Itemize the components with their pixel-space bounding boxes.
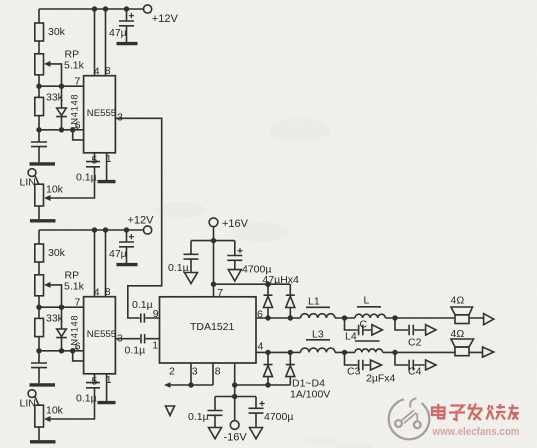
pin 8 stub [105, 9, 107, 76]
ground triangle [250, 428, 263, 439]
diode D4 [286, 352, 295, 385]
junction dot pin3 [188, 382, 193, 387]
open triangle [426, 360, 436, 370]
wire pin6 output row [256, 317, 483, 319]
resistor R 33k [35, 318, 44, 336]
terminal -16V [230, 421, 239, 430]
ground triangle floating [166, 406, 175, 416]
potentiometer RP 5.1k [35, 54, 44, 75]
capacitor 0.1u at pin5 [86, 153, 100, 167]
junction dots pin7 row [36, 84, 64, 89]
capacitor C2 zobel [395, 318, 425, 335]
terminal +16V [209, 218, 218, 227]
open triangle output B [483, 347, 494, 357]
diode D1 [264, 284, 273, 318]
capacitor 4700u supply B [249, 397, 264, 428]
wire +12V rail [39, 9, 144, 23]
capacitor 47u electrolytic [119, 230, 134, 263]
junction dots pin6 row [36, 127, 75, 132]
RP wiper arrow [50, 285, 62, 307]
RP wiper arrow [50, 64, 62, 86]
capacitor 0.1u coupling B [141, 334, 160, 343]
pin 3 stub [190, 363, 192, 385]
resistor R 30k [35, 23, 44, 41]
wire NE555(A) pin3 to C-in [115, 118, 161, 318]
speaker A 4ohm [451, 307, 473, 315]
inductor L3 [301, 348, 335, 352]
wire +12V rail [39, 230, 144, 244]
pin 4 stub [94, 230, 96, 297]
junction dots on +12V rail [92, 227, 129, 232]
wire decoupling rail bottom [215, 396, 256, 398]
ground triangle [185, 273, 198, 284]
ground triangle [209, 428, 222, 439]
terminal LIN [28, 390, 36, 398]
junction dots row A [265, 315, 397, 320]
wire pin3/8 to arrow [170, 384, 214, 386]
pin 8 stub [212, 363, 214, 385]
watermark text you [509, 405, 520, 420]
open triangle [371, 360, 382, 370]
ground bar [30, 162, 56, 165]
wire NE555(B) pin3 to C-in [115, 338, 140, 340]
wire 30k to RP [38, 262, 40, 275]
junction dots row B [265, 350, 397, 355]
ground bar [98, 401, 116, 404]
wire 10k to ground [38, 206, 40, 219]
watermark text dian [432, 404, 519, 421]
junction dot [265, 282, 270, 287]
junction dots on +12V rail [92, 6, 129, 11]
junction dots pin7 row [36, 305, 64, 310]
ground bar [117, 42, 138, 45]
wire node pin6 row [39, 116, 84, 130]
wire 10k to ground [38, 427, 40, 440]
wire decoupling rail top [191, 240, 235, 242]
watermark text zi [449, 406, 465, 421]
wire pin1 to ground [106, 374, 108, 401]
speaker B 4ohm [451, 339, 474, 347]
diode D3 [264, 352, 273, 385]
wire LIN to 10k [35, 175, 39, 184]
capacitor 0.1u supply B [208, 397, 223, 428]
diode 1N4148 [56, 307, 67, 351]
wire pin2 step [73, 130, 84, 140]
ground triangle [228, 270, 241, 281]
capacitor 47u electrolytic [119, 9, 134, 42]
junction dots on +16V line [211, 238, 216, 287]
wire pin4 output row [256, 351, 482, 353]
ground bar [117, 263, 138, 266]
paper smudges [154, 118, 374, 448]
watermark text shao [487, 404, 506, 420]
wire pin2 step [73, 351, 84, 361]
logo circle elecfans [389, 398, 430, 439]
capacitor C zobel [345, 318, 372, 335]
resistor R 33k [35, 97, 44, 115]
open triangle output A [484, 314, 494, 325]
terminal LIN [28, 169, 36, 177]
10k wiper arrow to pin5 [50, 388, 95, 419]
potentiometer 10k [35, 184, 44, 206]
wire LIN to 10k [35, 396, 39, 405]
junction dots pin6 row [36, 348, 75, 353]
wire +16V to pin7 [213, 227, 215, 297]
pin 4 stub [94, 9, 96, 76]
wire 30k to RP [38, 41, 40, 54]
terminal +12V [144, 226, 152, 234]
ground bar [30, 440, 56, 443]
capacitor C3 zobel [345, 352, 370, 370]
capacitor at threshold node [31, 130, 47, 163]
capacitor 0.1u supply A [184, 241, 199, 273]
pin 5 wire to -16V [234, 363, 236, 421]
wire pin1 to ground [106, 153, 108, 180]
wire flyback rail -16V [235, 384, 291, 386]
IC TDA1521 [160, 297, 257, 363]
ground bar [30, 219, 56, 222]
diode 1N4148 [56, 86, 67, 130]
inductor L1 [301, 314, 335, 318]
capacitor at threshold node [31, 351, 47, 384]
capacitor 0.1u at pin5 [86, 374, 100, 388]
10k wiper arrow to pin5 [50, 167, 95, 198]
open triangle [426, 325, 436, 335]
junction dots pin5 [232, 382, 271, 399]
resistor R 30k [35, 244, 44, 262]
potentiometer 10k [35, 405, 44, 427]
wire node pin7 row [39, 296, 84, 319]
capacitor 0.1u coupling A [141, 313, 160, 322]
diode D2 [286, 284, 295, 318]
wire node pin7 row [39, 75, 84, 98]
ground bar [30, 383, 56, 386]
terminal +12V [144, 5, 152, 13]
capacitor C4 zobel [395, 352, 425, 370]
pin 8 stub [105, 230, 107, 297]
inductor L [355, 314, 385, 318]
IC NE555 [84, 297, 116, 374]
wire flyback rail +16V [214, 283, 291, 285]
wire node pin6 row [39, 337, 84, 351]
open triangle [372, 325, 383, 335]
IC NE555 [84, 76, 116, 153]
watermark text fa [468, 404, 483, 421]
capacitor 4700u supply A [227, 241, 242, 270]
ground bar [98, 180, 116, 183]
potentiometer RP 5.1k [35, 275, 44, 296]
inductor L4 [355, 349, 383, 352]
